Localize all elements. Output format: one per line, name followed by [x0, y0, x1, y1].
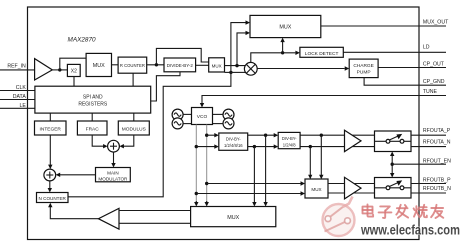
svg-text:N COUNTER: N COUNTER: [39, 196, 67, 201]
wire VCO output A (gray): [206, 125, 208, 205]
VCO: [192, 108, 213, 125]
watermark logo elecfans: [323, 197, 355, 237]
svg-text:LE: LE: [19, 103, 26, 109]
node mux output: [235, 64, 238, 67]
svg-text:MUX: MUX: [227, 215, 239, 221]
wire DIVIDE-BY-2 to small MUX: [196, 64, 209, 66]
wire CP_OUT: [378, 67, 446, 69]
svg-text:DATA: DATA: [13, 94, 27, 100]
svg-text:MAIN: MAIN: [107, 171, 118, 176]
wire adder1 to N counter: [49, 181, 51, 189]
svg-text:DIV-BY-: DIV-BY-: [226, 137, 241, 142]
svg-text:MUX: MUX: [311, 187, 321, 192]
R counter: [118, 57, 147, 73]
svg-text:RFOUTA_N: RFOUTA_N: [423, 139, 451, 145]
B path MUX: [305, 179, 328, 198]
svg-text:R COUNTER: R COUNTER: [120, 63, 145, 69]
wire VCO A to B MUX upper: [207, 183, 301, 185]
wires buffer A to switch A: [352, 134, 374, 136]
N counter: [37, 193, 69, 203]
svg-text:CHARGE: CHARGE: [353, 63, 374, 69]
char you: [431, 205, 443, 218]
svg-text:1/2/4/8: 1/2/4/8: [283, 142, 296, 147]
wire SPI to INTEGER: [49, 113, 51, 121]
svg-text:VCO: VCO: [197, 114, 208, 120]
svg-text:RFOUTB_P: RFOUTB_P: [423, 177, 451, 183]
wire CP_GND: [364, 78, 446, 86]
pin RFOUTB_N: [411, 186, 451, 193]
pin RFOUTB_P: [411, 177, 451, 183]
wire B MUX to buffer B lower: [328, 192, 350, 194]
wire MUX_OUT: [321, 25, 446, 27]
svg-text:DIV-BY-: DIV-BY-: [282, 136, 297, 141]
divide-by-2: [164, 58, 196, 72]
wire DIV1 to DIV2 lower: [248, 146, 275, 148]
node lock detect tee: [281, 51, 284, 54]
bottom feedback MUX: [191, 207, 276, 227]
svg-text:CLK: CLK: [16, 85, 27, 91]
arrow VCO B into bottom MUX: [195, 201, 197, 203]
adder1 integer+frac: [44, 169, 56, 181]
divider DIV-BY-1/2/4/8: [278, 132, 300, 148]
node to B mux via 310: [309, 145, 312, 148]
divider DIV-BY-1/2/4/8/16: [219, 133, 248, 150]
node N feedback: [229, 71, 232, 74]
wire B MUX to buffer B upper: [328, 183, 350, 185]
svg-text:REGISTERS: REGISTERS: [78, 102, 108, 108]
chip outline MAX2870: [28, 7, 420, 240]
node div1 lower out: [253, 145, 256, 148]
wire PFD to lock detect: [251, 53, 296, 63]
watermark text chinese (drawn as vector strokes: 电子发烧友): [363, 204, 444, 218]
svg-text:LOCK DETECT: LOCK DETECT: [305, 51, 339, 57]
doubler X2: [67, 64, 80, 76]
svg-text:RFOUTA_P: RFOUTA_P: [423, 128, 451, 134]
svg-text:MAX2870: MAX2870: [68, 37, 97, 44]
svg-text:LD: LD: [423, 45, 430, 51]
svg-text:INTEGER: INTEGER: [40, 126, 62, 132]
wire PFD to charge pump: [257, 68, 345, 70]
wire DIV1 to DIV2 upper: [248, 134, 275, 136]
char fa: [396, 205, 408, 218]
wire X2 to SPI registers: [73, 77, 75, 87]
wire TUNE to VCO: [202, 96, 446, 104]
wire div1 upper to bottom MUX: [265, 135, 267, 203]
register INTEGER: [35, 121, 67, 135]
svg-text:1/2/4/8/16: 1/2/4/8/16: [224, 143, 243, 148]
pin CLK: [0, 85, 35, 91]
wire feedback into N counter: [50, 207, 98, 219]
char zi: [379, 206, 392, 218]
wire R COUNTER to SPI registers: [132, 73, 134, 86]
svg-text:www.elecfans.com: www.elecfans.com: [360, 222, 460, 237]
wire div1 lower to bottom MUX: [253, 147, 255, 203]
wire up into big MUX bottom: [282, 42, 284, 53]
wire DIVIDE-BY-2 to SPI registers: [151, 72, 180, 101]
svg-text:RFOUTB_N: RFOUTB_N: [423, 186, 451, 192]
VCO right resonator coils: [213, 109, 235, 129]
arrow VCO A into bottom MUX: [206, 201, 208, 203]
svg-text:REF_IN: REF_IN: [7, 63, 26, 69]
pfd mux: [209, 58, 225, 72]
node after buffer: [58, 68, 61, 71]
node VCO B to div1: [195, 145, 198, 148]
switch A: [375, 131, 412, 152]
svg-text:TUNE: TUNE: [423, 89, 438, 95]
wire into DIV1 upper: [207, 134, 215, 136]
svg-text:CP_GND: CP_GND: [423, 79, 445, 85]
VCO left resonator coils: [172, 109, 191, 129]
pin REF_IN: [0, 63, 35, 70]
wire DIV2 to buffer A lower: [300, 146, 348, 148]
char shao: [414, 205, 427, 217]
node VCO A to BMUX: [205, 182, 208, 185]
wire MODULUS to adder2: [123, 135, 134, 146]
svg-text:MODULUS: MODULUS: [122, 126, 146, 132]
charge pump: [349, 59, 378, 78]
svg-text:MUX: MUX: [279, 25, 291, 31]
node VCO A to div1: [205, 134, 208, 137]
wire N feedback to phase detector: [231, 71, 246, 73]
wire VCO B to B MUX lower: [196, 193, 301, 195]
svg-text:SPI AND: SPI AND: [83, 94, 103, 100]
wire SPI to MODULUS: [133, 113, 135, 121]
wire mux bottom stub: [225, 71, 231, 73]
register FRAC: [77, 121, 107, 135]
svg-text:FRAC: FRAC: [86, 126, 100, 132]
wire FRAC to adder2: [92, 135, 104, 146]
svg-text:RFOUT_EN: RFOUT_EN: [423, 158, 451, 164]
svg-text:DIVIDE-BY-2: DIVIDE-BY-2: [167, 63, 194, 68]
wire N feedback down to N counter: [68, 72, 231, 196]
wire R counter bypass to small MUX: [156, 48, 208, 64]
big output MUX: [250, 15, 321, 37]
wire mux output to big MUX lower input: [237, 33, 246, 66]
wire MUX to R COUNTER: [112, 64, 119, 66]
wire INTEGER to adder1: [49, 135, 51, 165]
wire into DIV1 lower: [196, 146, 215, 148]
node VCO B to BMUX: [195, 192, 198, 195]
output buffer B: [345, 177, 362, 199]
register MODULUS: [118, 121, 149, 135]
wire VCO output B (gray): [195, 125, 197, 205]
lock detect: [300, 47, 343, 57]
svg-text:PUMP: PUMP: [357, 70, 371, 76]
wire small MUX to phase detector: [225, 65, 246, 67]
wire R COUNTER to DIVIDE-BY-2: [147, 64, 164, 66]
wire SPI to FRAC: [91, 113, 93, 121]
node to B mux via 321: [320, 134, 323, 137]
main modulator: [96, 168, 131, 182]
svg-text:X2: X2: [71, 69, 77, 75]
svg-text:MUX: MUX: [93, 63, 105, 69]
phase frequency detector: [244, 62, 257, 75]
svg-text:MUX: MUX: [212, 63, 222, 68]
switch B: [375, 178, 412, 199]
pin RFOUTA_N: [411, 139, 451, 146]
pin DATA: [0, 94, 35, 100]
wire ref direct to MUX upper input: [60, 58, 86, 70]
wire main modulator to adder1: [60, 174, 96, 176]
wire adder2 to main modulator: [113, 152, 115, 164]
svg-text:MUX_OUT: MUX_OUT: [423, 20, 449, 26]
pin LE: [0, 103, 35, 109]
SPI registers: [35, 86, 151, 113]
rfout enable link: [390, 152, 446, 178]
wire down to B MUX input 1: [320, 135, 322, 175]
char dian: [363, 204, 374, 216]
wire buffer to X2: [52, 69, 67, 71]
wire bottom MUX to feedback buffer: [119, 210, 191, 212]
wires buffer B to switch B: [354, 183, 375, 185]
reference input buffer: [35, 59, 53, 80]
feedback buffer triangle: [98, 208, 119, 229]
svg-text:MODULATOR: MODULATOR: [98, 177, 128, 182]
wire N feedback to big MUX upper input: [231, 23, 246, 73]
pin RFOUTA_P: [411, 128, 451, 135]
wire LD: [343, 51, 446, 53]
mux reference select: [86, 53, 111, 76]
node div1 upper out: [264, 134, 267, 137]
wire down to B MUX input 2: [309, 147, 311, 176]
node R counter output: [155, 63, 158, 66]
svg-text:CP_OUT: CP_OUT: [423, 61, 445, 67]
adder2 frac+modulus: [108, 140, 120, 152]
wire DIV2 to buffer A upper: [300, 134, 348, 136]
output buffer A: [345, 130, 362, 151]
